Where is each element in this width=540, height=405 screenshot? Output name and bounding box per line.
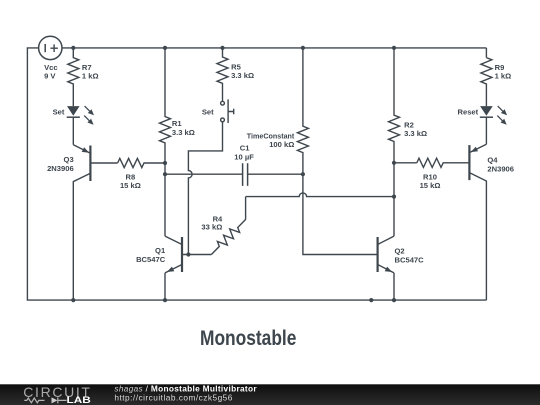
node R2 bottom / R10 junction	[392, 161, 396, 165]
svg-text:3.3 kΩ: 3.3 kΩ	[172, 128, 195, 137]
wire button to Q1 base with hop	[188, 122, 222, 255]
transistor Q4 2N3906	[469, 144, 486, 300]
wire left rail from battery down and bottom rail	[27, 48, 486, 300]
label TimeConstant 100kΩ	[247, 132, 295, 150]
wire LED to Q4 emitter	[485, 117, 487, 144]
wire TC junction down to Q2 base	[303, 174, 378, 254]
resistor R9	[481, 58, 492, 107]
node C1 left junction	[163, 172, 167, 176]
label Q2 BC547C	[395, 247, 425, 265]
svg-text:Reset: Reset	[458, 108, 479, 117]
label R8 15kΩ	[120, 172, 141, 190]
footer author/title	[114, 383, 257, 402]
wire Q1 emitter to rail	[164, 273, 166, 300]
svg-text:Q2: Q2	[395, 247, 405, 256]
LED D_Reset	[480, 106, 507, 125]
svg-text:Q4: Q4	[487, 156, 498, 165]
footer bar	[0, 384, 540, 405]
logo LAB	[67, 395, 91, 405]
wire LED to Q3 emitter	[72, 117, 74, 145]
wire R10 lead left	[394, 162, 417, 164]
wire Q3 base to R8	[90, 162, 117, 164]
node R1 top	[163, 46, 167, 50]
transistor Q3 2N3906	[73, 145, 90, 300]
logo diode	[52, 397, 67, 403]
svg-text:C1: C1	[240, 143, 250, 152]
logo resistor zigzag	[24, 398, 44, 403]
wire Q2 emitter to rail	[393, 273, 395, 300]
svg-text:LAB: LAB	[67, 395, 91, 405]
svg-text:Set: Set	[202, 107, 214, 116]
svg-text:1 kΩ: 1 kΩ	[495, 71, 512, 80]
svg-text:Q1: Q1	[155, 246, 166, 255]
label Set (LED)	[53, 107, 65, 116]
wire top rail to R9	[485, 48, 487, 58]
label Set (button)	[202, 107, 214, 116]
svg-text:Set: Set	[53, 107, 65, 116]
node button wire to base	[186, 252, 190, 256]
resistor R2	[389, 48, 400, 163]
pushbutton SW Set	[221, 99, 234, 123]
label R5 3.3kΩ	[231, 63, 254, 81]
node extra on bottom rail	[369, 298, 373, 302]
wire R8 junction down to Q1 collector	[164, 163, 166, 236]
LED D_Set	[67, 106, 94, 125]
resistor R8	[118, 158, 165, 167]
label Q1 BC547C	[136, 246, 166, 264]
svg-text:R10: R10	[423, 172, 437, 181]
label R1 3.3kΩ	[172, 119, 195, 137]
svg-text:15 kΩ: 15 kΩ	[420, 181, 441, 190]
svg-text:3.3 kΩ: 3.3 kΩ	[404, 129, 427, 138]
svg-text:9 V: 9 V	[44, 72, 56, 81]
title Monostable	[200, 326, 296, 350]
node top of R7	[71, 46, 75, 50]
wire R2 junction down to Q2 collector	[393, 163, 395, 236]
node Q1 emitter at rail	[163, 298, 167, 302]
resistor TimeConstant	[297, 48, 308, 174]
label C1 10uF	[234, 143, 254, 161]
svg-text:2N3906: 2N3906	[47, 164, 74, 173]
node R5 top	[220, 46, 224, 50]
logo CIRCUIT	[23, 384, 90, 400]
svg-text:1 kΩ: 1 kΩ	[82, 72, 99, 81]
resistor R10	[417, 158, 470, 167]
svg-text:2N3906: 2N3906	[487, 165, 514, 174]
transistor Q2 BC547C	[378, 236, 394, 273]
svg-text:15 kΩ: 15 kΩ	[120, 181, 141, 190]
label R7 1kΩ	[82, 63, 99, 81]
node R2 top	[392, 46, 396, 50]
svg-text:100 kΩ: 100 kΩ	[269, 140, 294, 149]
node C1 right junction	[301, 172, 305, 176]
wire top rail	[62, 47, 486, 49]
resistor R4 diagonal	[208, 197, 249, 258]
wire C1 left	[165, 173, 243, 175]
label Reset	[458, 108, 479, 117]
node R4 wire at Q2 collector line	[392, 195, 396, 199]
label Q3 2N3906	[47, 155, 74, 173]
svg-text:33 kΩ: 33 kΩ	[201, 222, 222, 231]
resistor R7	[68, 48, 79, 106]
svg-text:10 µF: 10 µF	[234, 153, 254, 162]
label R4 33kΩ	[201, 215, 223, 232]
label R2 3.3kΩ	[404, 120, 427, 138]
transistor Q1 BC547C	[165, 236, 211, 273]
svg-text:Monostable: Monostable	[200, 326, 296, 350]
svg-text:http://circuitlab.com/czk5g56: http://circuitlab.com/czk5g56	[114, 392, 232, 402]
node Q2 emitter at rail	[392, 298, 396, 302]
svg-text:BC547C: BC547C	[395, 255, 425, 264]
battery V1	[39, 36, 62, 59]
label Vcc 9V	[44, 63, 58, 81]
label R10 15kΩ	[420, 172, 441, 190]
label R9 1kΩ	[495, 63, 512, 81]
resistor R5	[217, 48, 228, 101]
resistor R1	[160, 48, 171, 163]
node R8 right junction	[163, 161, 167, 165]
label Q4 2N3906	[487, 156, 514, 174]
capacitor C1	[243, 163, 303, 186]
svg-text:BC547C: BC547C	[136, 255, 166, 264]
wire R4 to Q2 collector with hop	[246, 193, 394, 197]
node Q3 collector at bottom rail	[71, 298, 75, 302]
node TimeConstant top	[301, 46, 305, 50]
svg-text:3.3 kΩ: 3.3 kΩ	[231, 71, 254, 80]
